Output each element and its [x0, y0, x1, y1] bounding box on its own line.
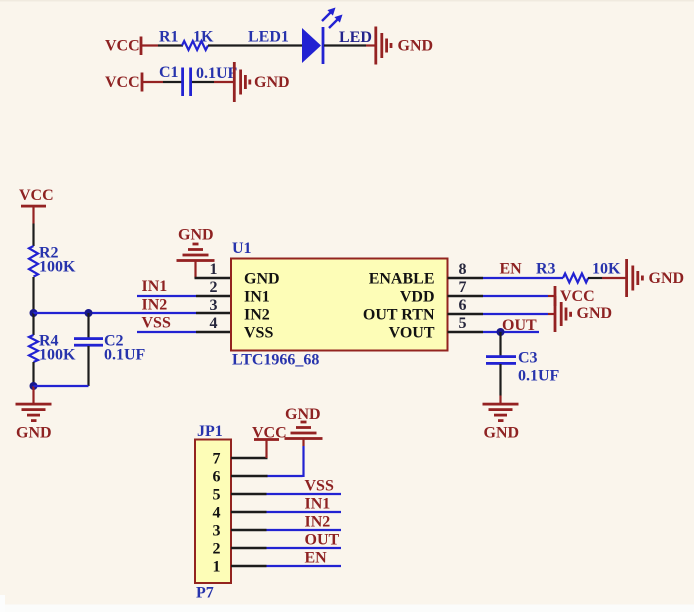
wire pin 5 VSS [231, 493, 341, 495]
LED D1 symbol [302, 8, 343, 65]
svg-text:IN1: IN1 [244, 288, 270, 305]
wire node A to IN2 pin (bus) [34, 312, 232, 314]
svg-text:10K: 10K [592, 261, 621, 278]
power port VCC (left rail) [19, 187, 54, 224]
svg-text:VCC: VCC [105, 74, 140, 91]
svg-text:GND: GND [16, 425, 52, 442]
earth ground GND (below C3) [483, 403, 520, 442]
svg-text:3: 3 [210, 297, 218, 314]
wire net IN1 to pin 2 [137, 295, 231, 297]
wire node B to GND [32, 386, 34, 404]
svg-text:4: 4 [210, 315, 218, 332]
svg-text:GND: GND [244, 270, 280, 287]
resistor R4 100K [29, 333, 76, 364]
svg-text:VCC: VCC [105, 38, 140, 55]
svg-text:2: 2 [210, 279, 218, 296]
wire C3 to GND [499, 364, 501, 404]
svg-text:7: 7 [213, 450, 221, 467]
svg-text:GND: GND [398, 38, 434, 55]
svg-text:IN2: IN2 [305, 514, 331, 531]
wire OUT to C3 [499, 332, 501, 356]
svg-text:IN2: IN2 [142, 297, 168, 314]
svg-text:100K: 100K [39, 259, 76, 276]
svg-text:8: 8 [459, 261, 467, 278]
node C junction (C2 tap) [85, 309, 93, 317]
svg-text:OUT: OUT [305, 532, 340, 549]
wire VCC to R2 [32, 224, 34, 247]
wire R4 to node B [32, 362, 34, 386]
svg-text:VSS: VSS [305, 478, 334, 495]
resistor R1 1K [159, 29, 214, 51]
svg-text:IN2: IN2 [244, 306, 270, 323]
pin 6 stub [448, 313, 484, 315]
svg-text:LED1: LED1 [248, 29, 289, 46]
wire pin 1 EN [231, 565, 341, 567]
wire pin 5 OUT [483, 331, 539, 333]
svg-text:OUT RTN: OUT RTN [363, 306, 435, 323]
capacitor C3 0.1UF [486, 350, 560, 385]
svg-text:GND: GND [178, 227, 214, 244]
power port VCC (top row 1) [105, 37, 142, 56]
svg-text:100K: 100K [39, 347, 76, 364]
svg-text:3: 3 [213, 522, 221, 539]
svg-text:VCC: VCC [19, 187, 54, 204]
node B junction [30, 382, 38, 390]
wire pin 8 to R3 [483, 277, 563, 279]
svg-text:LTC1966_68: LTC1966_68 [232, 352, 319, 369]
wire VCC stub to R1 (red then black) [141, 44, 183, 46]
svg-text:C3: C3 [518, 350, 538, 367]
svg-text:GND: GND [285, 406, 321, 423]
svg-text:IN1: IN1 [305, 496, 331, 513]
wire pin 4 IN1 [231, 511, 341, 513]
svg-text:LED: LED [339, 29, 372, 46]
svg-text:2: 2 [213, 540, 221, 557]
connector JP1 body [195, 423, 231, 602]
svg-text:GND: GND [254, 74, 290, 91]
resistor R3 10K [536, 261, 621, 283]
svg-text:VCC: VCC [560, 288, 595, 305]
svg-text:R1: R1 [159, 29, 179, 46]
wire pin 6 to GND [231, 439, 304, 477]
wire GND to pin 1 [195, 261, 232, 278]
wire node A to R4 [32, 313, 34, 335]
svg-text:0.1UF: 0.1UF [104, 347, 146, 364]
power ground GND (top row 1, sideways) [374, 27, 433, 65]
wire VCC to C1 [142, 81, 182, 83]
svg-text:VDD: VDD [400, 288, 435, 305]
node OUT junction [497, 328, 505, 336]
capacitor C1 0.1UF [159, 64, 238, 96]
wire pin 3 IN2 [231, 529, 341, 531]
power port VCC (pin 7) [554, 286, 595, 306]
wire R3 to GND [588, 277, 627, 279]
power port VCC (top row 2) [105, 73, 143, 92]
power ground GND (top row 2, sideways) [233, 62, 290, 102]
wire node C to C2 [87, 313, 89, 338]
svg-text:EN: EN [500, 261, 523, 278]
wire pin 7 to VCC [483, 295, 555, 297]
svg-text:IN1: IN1 [142, 278, 168, 295]
svg-text:GND: GND [649, 270, 685, 287]
svg-text:EN: EN [305, 550, 328, 567]
power port VCC (JP1 pin 7) [252, 425, 287, 442]
svg-text:0.1UF: 0.1UF [518, 368, 560, 385]
svg-text:0.1UF: 0.1UF [196, 65, 238, 82]
svg-text:5: 5 [213, 486, 221, 503]
svg-text:7: 7 [459, 279, 467, 296]
svg-text:U1: U1 [232, 240, 252, 257]
svg-text:6: 6 [459, 297, 467, 314]
wire R2 to node A [32, 277, 34, 313]
earth ground GND (above U1 pin 1, inverted) [177, 227, 215, 262]
wire net VSS to pin 4 [137, 331, 231, 333]
svg-text:P7: P7 [196, 585, 214, 602]
svg-text:VSS: VSS [244, 324, 273, 341]
svg-text:GND: GND [577, 305, 613, 322]
svg-text:GND: GND [484, 425, 520, 442]
svg-text:VOUT: VOUT [389, 324, 435, 341]
svg-text:1: 1 [213, 558, 221, 575]
wire C1 to GND [192, 81, 234, 83]
resistor R2 100K [29, 245, 76, 277]
pin 8 stub [448, 277, 484, 279]
earth ground GND (left bottom) [16, 403, 52, 442]
earth ground GND (JP1 pin 6, inverted) [285, 406, 323, 440]
op-amp U1 LTC1966_68 body [231, 240, 448, 369]
svg-text:JP1: JP1 [197, 423, 223, 440]
wire pin 2 OUT [231, 547, 341, 549]
wire pin 7 to VCC [231, 440, 268, 458]
svg-text:4: 4 [213, 504, 221, 521]
capacitor C2 0.1UF [74, 333, 146, 364]
wire pin 6 to GND [483, 313, 555, 315]
svg-text:ENABLE: ENABLE [369, 270, 435, 287]
node A junction [30, 309, 38, 317]
svg-text:6: 6 [213, 468, 221, 485]
power ground GND (pin 6, sideways) [554, 296, 612, 332]
wire LED cathode to GND [324, 44, 376, 46]
svg-text:VSS: VSS [142, 315, 171, 332]
wire R1 to LED1 [208, 44, 302, 46]
svg-text:C1: C1 [159, 64, 179, 81]
power ground GND (after R3, sideways) [625, 259, 684, 297]
svg-text:1: 1 [210, 261, 218, 278]
wire C2 to node B [34, 346, 89, 386]
svg-text:R3: R3 [536, 261, 556, 278]
pin 7 stub [448, 295, 484, 297]
pin 5 stub [448, 331, 484, 333]
svg-text:5: 5 [459, 315, 467, 332]
